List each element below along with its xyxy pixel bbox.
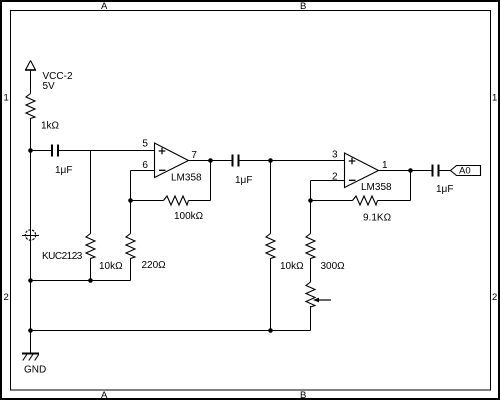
wire to op-amp U1 pin6 <box>131 170 155 172</box>
wire node down to R5 10k top <box>270 161 272 234</box>
svg-text:A0: A0 <box>459 166 471 177</box>
op-amp U1 LM358 <box>155 143 189 178</box>
svg-text:10kΩ: 10kΩ <box>99 261 123 272</box>
svg-text:A: A <box>101 1 108 12</box>
op-amp U2 LM358 <box>345 153 379 188</box>
junction node at U1 output <box>208 158 213 163</box>
junction node at R1/C1/mic <box>28 148 33 153</box>
wire node to C1 left plate <box>31 150 52 152</box>
svg-text:100kΩ: 100kΩ <box>174 211 204 222</box>
svg-text:1μF: 1μF <box>235 175 252 186</box>
junction node at U1 pin6 feedback <box>128 198 133 203</box>
wire junction down to R2 10k top <box>90 151 92 234</box>
wire C1 right plate to op-amp U1 pin5 <box>59 150 155 152</box>
resistor R6 300 <box>306 234 315 259</box>
resistor R1 1k <box>26 94 35 119</box>
svg-text:A: A <box>101 390 108 400</box>
wire node to R4 100k left <box>131 200 164 202</box>
svg-text:1μF: 1μF <box>436 184 453 195</box>
svg-text:7: 7 <box>191 150 197 161</box>
resistor R7 9.1k <box>353 196 378 205</box>
power symbol VCC-2 <box>25 61 36 71</box>
svg-text:5V: 5V <box>43 81 56 92</box>
junction node R2 to lower rail <box>88 278 93 283</box>
port flag A0 <box>451 166 481 176</box>
svg-text:2: 2 <box>332 172 338 183</box>
wire pin2 branch down through node to R6 300 top <box>310 181 312 234</box>
svg-text:6: 6 <box>142 160 148 171</box>
svg-text:LM358: LM358 <box>171 173 202 184</box>
wire R3 220 bottom up from rail <box>130 258 132 281</box>
potentiometer VR1 <box>306 282 331 307</box>
capacitor C2 <box>233 155 239 167</box>
svg-text:1kΩ: 1kΩ <box>41 121 60 132</box>
wire feedback corner up to output node <box>410 171 412 201</box>
svg-text:B: B <box>300 1 306 12</box>
resistor R4 100k <box>164 196 189 205</box>
capacitor C3 <box>433 165 439 177</box>
resistor R3 220 <box>126 234 135 259</box>
wire to op-amp U2 pin2 <box>311 180 345 182</box>
wire R1 bottom through node, mic, to GND <box>30 118 32 354</box>
wire R4 100k right to corner <box>189 200 211 202</box>
ground symbol GND <box>22 354 39 361</box>
wire C2 right plate to op-amp U2 pin3 <box>240 160 345 162</box>
wire VCC to R1 top <box>30 70 32 94</box>
wire R7 9.1k right to corner <box>378 200 411 202</box>
svg-text:KUC2123: KUC2123 <box>42 251 83 262</box>
junction node ground rail left <box>28 328 33 333</box>
svg-text:2: 2 <box>492 292 497 303</box>
wire ground rail <box>31 330 311 332</box>
svg-text:300Ω: 300Ω <box>321 261 346 272</box>
resistor R2 10k <box>86 234 95 259</box>
microphone MK1 KUC2123 <box>22 230 39 240</box>
wire lower rail mic/R2/R3 <box>31 280 131 282</box>
wire pot VR1 bottom to ground rail <box>310 306 312 331</box>
svg-text:10kΩ: 10kΩ <box>280 261 304 272</box>
svg-text:220Ω: 220Ω <box>142 260 167 271</box>
wire C3 right plate to port A0 <box>440 170 451 172</box>
wire U2 output to C3 left plate <box>379 170 432 172</box>
wire feedback corner up to output node <box>210 161 212 201</box>
wire node to R7 9.1k left <box>311 200 353 202</box>
svg-text:LM358: LM358 <box>361 182 392 193</box>
junction node at U2 pin2 feedback <box>308 198 313 203</box>
wire U1 output to C2 left plate <box>189 160 232 162</box>
svg-text:1: 1 <box>382 160 388 171</box>
wire R2 10k bottom to lower rail <box>90 258 92 281</box>
wire R3 220 top to feedback node and pin6 branch <box>130 171 132 234</box>
svg-text:5: 5 <box>142 139 148 150</box>
wire R6 300 bottom to pot VR1 top <box>310 258 312 282</box>
svg-text:1μF: 1μF <box>55 165 72 176</box>
resistor R5 10k <box>266 234 275 259</box>
wire R5 10k bottom to ground rail <box>270 258 272 331</box>
svg-text:9.1KΩ: 9.1KΩ <box>363 213 392 224</box>
junction node R5 to ground rail <box>268 328 273 333</box>
junction node mic to lower rail <box>28 278 33 283</box>
svg-text:3: 3 <box>332 150 338 161</box>
svg-text:1: 1 <box>4 93 9 104</box>
svg-text:GND: GND <box>24 365 46 376</box>
svg-text:B: B <box>300 390 306 400</box>
junction node at U2 output <box>408 168 413 173</box>
capacitor C1 <box>52 145 58 157</box>
svg-text:2: 2 <box>4 292 9 303</box>
svg-text:1: 1 <box>492 93 497 104</box>
junction node at C2/U2 pin3 <box>268 158 273 163</box>
